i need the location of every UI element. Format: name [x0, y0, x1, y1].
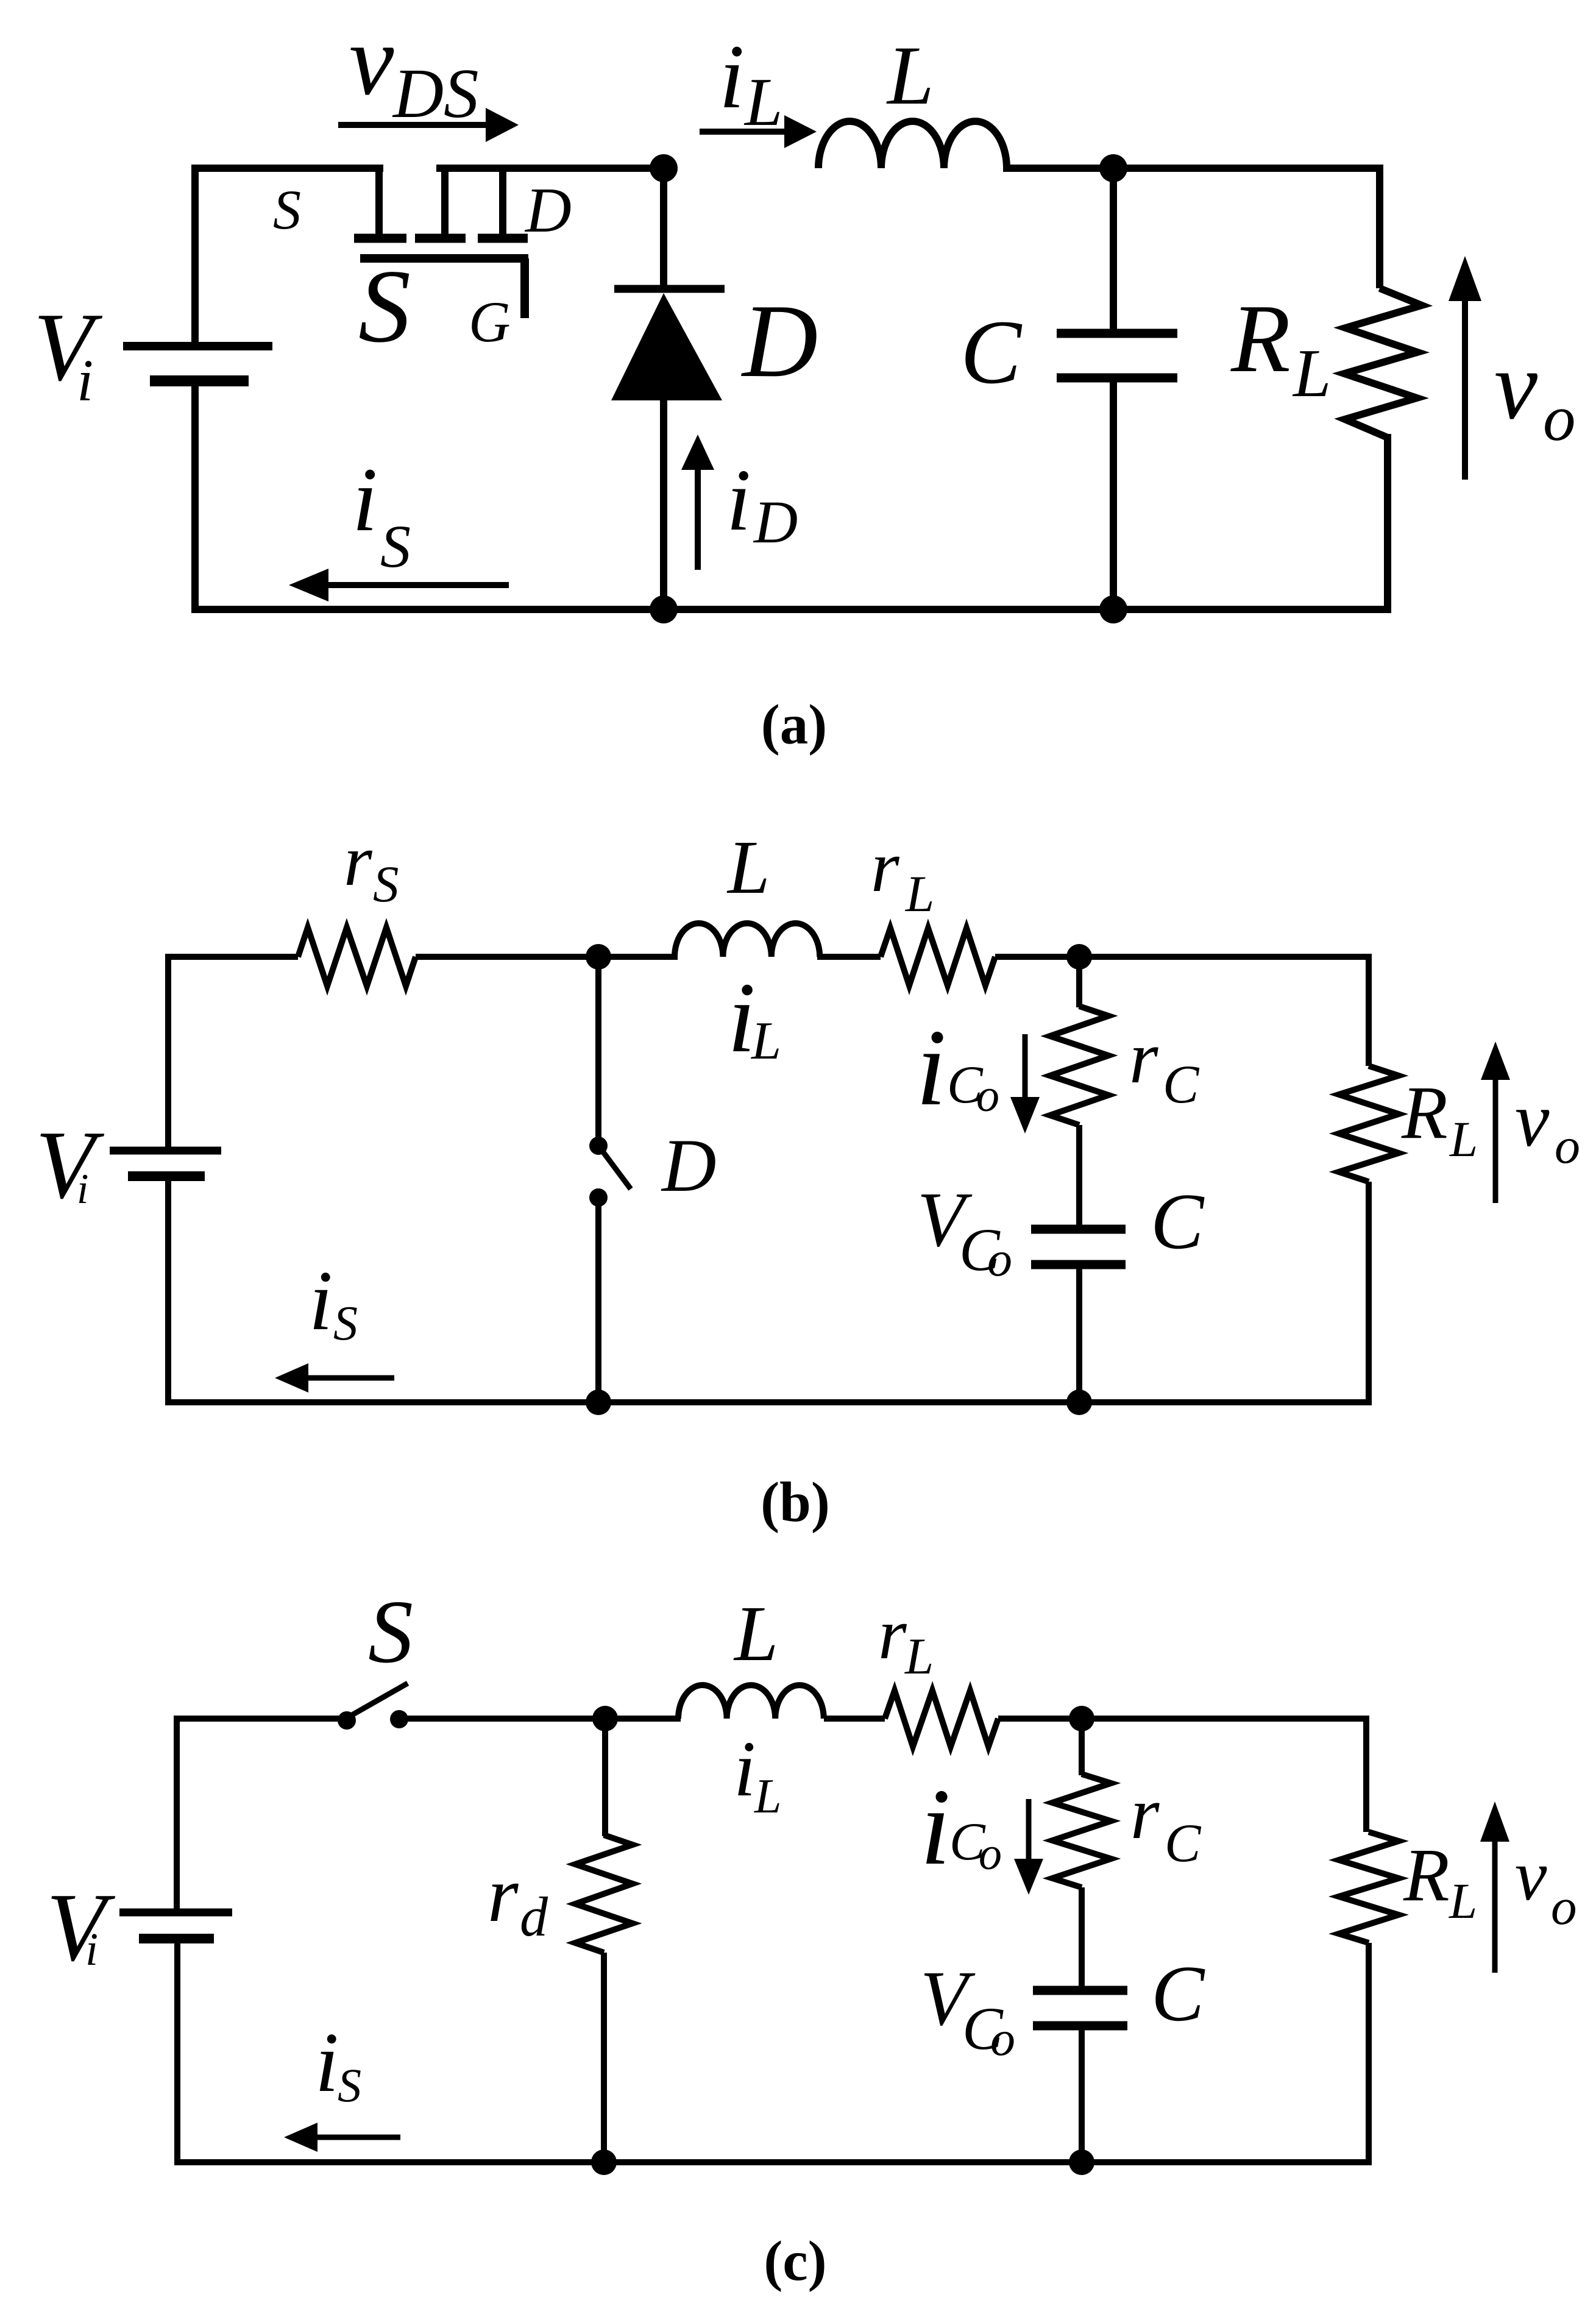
svg-text:(b): (b) — [761, 1471, 830, 1534]
svg-text:L: L — [1449, 1111, 1478, 1167]
node C (a) diode bottom junction — [650, 595, 678, 623]
svg-text:d: d — [520, 1886, 548, 1948]
svg-text:i: i — [315, 2015, 339, 2110]
capacitor C (b) — [1031, 1225, 1126, 1234]
node D (a) capacitor bottom junction — [1099, 595, 1127, 623]
wire: (a) battery positive lead + top-left wire to MOSFET source — [195, 168, 383, 342]
svg-text:S: S — [368, 1582, 413, 1682]
wire: (b) bottom return wire — [165, 1399, 1372, 1405]
svg-text:i: i — [726, 452, 751, 549]
resistor rS (b) — [298, 928, 416, 986]
wire: (b) inductor to rL — [817, 954, 881, 960]
svg-text:v: v — [1515, 1836, 1547, 1915]
capacitor C (a) — [1057, 329, 1177, 338]
node F (b) capacitor branch top junction — [1066, 944, 1092, 970]
svg-text:o: o — [1551, 1878, 1577, 1936]
svg-text:L: L — [726, 826, 770, 910]
wire: (b) rL to node F and to RL corner — [995, 954, 1369, 960]
svg-text:o: o — [990, 2011, 1015, 2066]
arrow iS (b) — [275, 1363, 308, 1393]
svg-text:C: C — [1151, 1177, 1205, 1266]
arrow iD — [681, 435, 714, 470]
svg-text:S: S — [380, 513, 411, 580]
wire: (c) inductor to rL — [824, 1716, 885, 1722]
svg-text:i: i — [77, 348, 93, 414]
wire: (a) diode cathode lead — [660, 168, 667, 285]
svg-text:i: i — [734, 1725, 756, 1813]
svg-text:C: C — [960, 302, 1023, 403]
wire: (a) battery negative lead — [191, 385, 199, 613]
svg-text:o: o — [1543, 383, 1576, 455]
resistor rC (c) — [1052, 1774, 1111, 1887]
node A (a) switch/diode/inductor junction — [650, 154, 678, 182]
svg-text:L: L — [733, 1590, 778, 1678]
arrow iS (c) — [284, 2123, 317, 2152]
svg-text:(a): (a) — [761, 694, 827, 756]
battery Vi (c) short plate — [139, 1934, 214, 1943]
resistor rd (c) — [575, 1835, 633, 1953]
svg-text:i: i — [916, 1007, 946, 1128]
svg-text:v: v — [1515, 1077, 1550, 1163]
svg-text:D: D — [661, 1124, 717, 1207]
inductor L (b) — [675, 923, 820, 957]
svg-text:D: D — [753, 488, 798, 556]
wire: (c) corner down to RL — [1363, 1716, 1369, 1832]
wire: (c) rC to capacitor — [1079, 1887, 1085, 1987]
svg-text:L: L — [904, 1628, 934, 1685]
wire: (a) inductor to node B — [1003, 165, 1380, 172]
svg-text:i: i — [920, 1766, 951, 1887]
svg-text:r: r — [1129, 1017, 1158, 1099]
node K (c) rd bottom junction — [591, 2149, 617, 2175]
svg-text:C: C — [1163, 1055, 1200, 1115]
svg-text:L: L — [905, 865, 934, 923]
arrow vo (b) — [1481, 1042, 1510, 1080]
svg-text:r: r — [878, 1593, 907, 1674]
wire: (c) switch to node I — [407, 1716, 681, 1722]
battery Vi (b) long plate — [110, 1147, 221, 1155]
wire: (c) RL bottom lead — [1366, 1943, 1372, 2165]
svg-text:C: C — [1165, 1814, 1202, 1873]
arrow iCo (b) — [1010, 1097, 1040, 1134]
inductor L (c) — [678, 1685, 824, 1719]
svg-text:L: L — [1292, 336, 1331, 411]
svg-text:v: v — [349, 4, 394, 116]
svg-text:D: D — [524, 174, 572, 246]
svg-text:L: L — [1449, 1873, 1477, 1929]
svg-text:L: L — [743, 65, 782, 140]
svg-text:r: r — [1130, 1772, 1160, 1854]
svg-text:S: S — [338, 2059, 361, 2112]
resistor RL (c) — [1339, 1832, 1399, 1943]
wire: (a) node B to load resistor top — [1376, 165, 1383, 288]
svg-text:C: C — [1151, 1950, 1205, 2038]
wire: (c) battery negative lead — [174, 1942, 180, 2165]
svg-text:i: i — [85, 1924, 98, 1975]
svg-text:S: S — [373, 856, 399, 913]
wire: (c) top-left corner to switch — [177, 1719, 339, 1910]
svg-text:R: R — [1401, 1071, 1448, 1154]
resistor RL (a) — [1344, 288, 1422, 438]
battery Vi (a) long plate — [123, 342, 272, 350]
wire: (b) top wire corner down to RL — [1366, 954, 1372, 1066]
wire: (b) node E to switch — [595, 957, 601, 1137]
wire: (c) rd bottom lead — [601, 1953, 607, 2162]
wire: (b) node F to rC — [1076, 957, 1082, 1007]
svg-text:i: i — [309, 1254, 333, 1348]
svg-text:S: S — [358, 249, 411, 364]
arrow iL (a) — [784, 115, 817, 148]
wire: (a) capacitor top lead — [1110, 168, 1117, 329]
wire: (a) bottom return wire — [191, 606, 1391, 613]
svg-text:(c): (c) — [764, 2230, 826, 2293]
diode D (a) — [614, 285, 725, 293]
wire: (c) node I to rd — [602, 1719, 608, 1836]
wire: (b) top-left corner to rS — [168, 957, 298, 1148]
svg-text:V: V — [35, 1110, 105, 1219]
svg-text:S: S — [333, 1297, 358, 1350]
arrow vo (a) — [1449, 256, 1481, 301]
svg-text:D: D — [741, 283, 818, 399]
node I (c) rd top junction — [592, 1706, 618, 1731]
svg-text:DS: DS — [392, 55, 479, 132]
svg-text:R: R — [1403, 1833, 1450, 1917]
switch S (c) open — [338, 1711, 356, 1730]
node L (c) capacitor bottom junction — [1069, 2149, 1094, 2175]
node G (b) switch bottom junction — [586, 1389, 611, 1415]
arrow iS (a) — [289, 569, 328, 602]
wire: (c) bottom return wire — [174, 2159, 1372, 2165]
wire: (c) node J to rC — [1079, 1719, 1085, 1775]
svg-text:o: o — [987, 1231, 1012, 1287]
svg-text:R: R — [1230, 284, 1291, 392]
resistor rL (c) — [885, 1691, 998, 1747]
battery Vi (b) short plate — [128, 1171, 205, 1181]
wire: (c) rL to node J and RL corner — [998, 1716, 1366, 1722]
svg-text:o: o — [1555, 1118, 1580, 1174]
svg-text:r: r — [344, 820, 373, 901]
svg-text:i: i — [77, 1166, 88, 1213]
wire: (b) RL bottom lead — [1366, 1182, 1372, 1405]
svg-text:i: i — [352, 449, 378, 550]
node H (b) capacitor bottom junction — [1066, 1389, 1092, 1415]
resistor rC (b) — [1050, 1006, 1108, 1125]
battery Vi (c) long plate — [119, 1909, 232, 1917]
svg-text:i: i — [719, 26, 745, 127]
wire: (b) rC to capacitor — [1076, 1125, 1082, 1225]
switch D (b) open — [589, 1137, 608, 1155]
svg-text:S: S — [273, 179, 301, 241]
node J (c) capacitor branch top junction — [1069, 1706, 1094, 1731]
svg-text:v: v — [1494, 331, 1538, 439]
node B (a) inductor/capacitor junction — [1099, 154, 1127, 182]
svg-text:o: o — [979, 1828, 1002, 1879]
resistor rL (b) — [881, 928, 995, 985]
svg-text:L: L — [754, 1770, 782, 1823]
svg-text:L: L — [886, 29, 934, 122]
inductor L (a) — [818, 121, 1007, 168]
svg-text:L: L — [750, 1012, 781, 1071]
arrow vo (c) — [1480, 1801, 1509, 1842]
resistor RL (b) — [1339, 1066, 1399, 1182]
node E (b) diode-switch top junction — [586, 944, 611, 970]
wire: (b) rS to inductor — [416, 954, 678, 960]
wire: (a) MOSFET drain to node A — [436, 165, 667, 172]
capacitor C (c) — [1033, 1986, 1127, 1995]
wire: (a) load resistor bottom lead — [1384, 434, 1391, 613]
svg-text:r: r — [488, 1851, 519, 1939]
transistor S (MOSFET) — [375, 165, 383, 234]
arrow iCo (c) — [1014, 1859, 1043, 1895]
svg-text:V: V — [46, 1873, 116, 1981]
arrow vDS — [486, 108, 519, 142]
wire: (b) battery negative lead — [165, 1180, 171, 1405]
svg-text:r: r — [871, 826, 900, 907]
svg-text:G: G — [469, 289, 511, 354]
battery Vi (a) short plate — [150, 375, 249, 386]
svg-text:o: o — [976, 1070, 999, 1121]
